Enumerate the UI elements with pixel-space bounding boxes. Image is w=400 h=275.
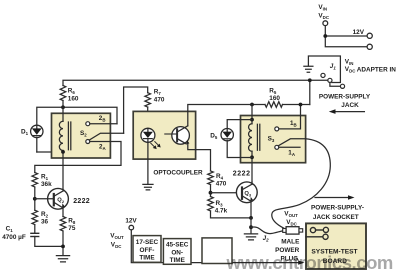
svg-text:Q2: Q2 [57, 198, 65, 204]
svg-text:R3: R3 [216, 200, 224, 208]
svg-text:MALE: MALE [281, 239, 300, 246]
resistor R7 (470) [145, 93, 151, 107]
diode D5 [221, 120, 252, 158]
ground in J1 [304, 66, 313, 72]
inductor coil S3 [249, 124, 252, 152]
svg-text:160: 160 [269, 95, 280, 102]
wire: opto collector up and right to relay/R5 line [188, 105, 265, 112]
svg-text:JACK SOCKET: JACK SOCKET [313, 214, 359, 221]
svg-text:TIME: TIME [170, 257, 186, 264]
svg-text:75: 75 [68, 225, 76, 232]
svg-text:VDC: VDC [345, 66, 356, 74]
wire: R3 bottom to Q3 emitter rail [211, 211, 252, 218]
svg-text:17-SEC: 17-SEC [136, 239, 159, 246]
wire: R4 bottom to base node [210, 185, 212, 197]
junction: J2 cable tap [249, 225, 253, 229]
svg-text:2222: 2222 [73, 198, 90, 205]
transistor Q2 [48, 188, 69, 216]
socket contact pair [310, 227, 328, 232]
relay box S3 [241, 116, 306, 163]
wire: R7 bottom into optocoupler box [147, 107, 149, 128]
wire: node to D1 anode and to S2 contact 2B riser [37, 107, 117, 125]
system-test board box [306, 223, 366, 269]
wire: main 12V bus from R6 top to jack J1 node [63, 80, 310, 104]
junction: coil bottom / D1 cathode [61, 150, 65, 154]
svg-text:470: 470 [154, 96, 165, 103]
wire: jack B to pin C [330, 83, 341, 87]
wire: R5 right to jack riser [283, 104, 310, 106]
wire: emitter rail down to ground [250, 218, 252, 234]
svg-text:www.cntronics.com: www.cntronics.com [226, 252, 393, 273]
svg-text:ON-: ON- [171, 249, 183, 256]
contact 1A circle [275, 145, 279, 149]
wire: bus node to jack contact B [310, 79, 328, 81]
junction: relay coil top on R5 line [250, 103, 254, 107]
wire: 2A lead to R1 top [35, 142, 121, 173]
wire: 2B lead [90, 123, 117, 125]
svg-text:Q3: Q3 [244, 191, 252, 197]
contact 1B circle [275, 127, 279, 131]
svg-text:C1: C1 [6, 226, 14, 234]
male power plug [283, 227, 303, 234]
junction: R8/C1/ground [61, 245, 65, 249]
wire: coil top riser [251, 105, 253, 124]
svg-text:12V: 12V [353, 29, 365, 36]
box blank [202, 238, 232, 264]
LED emission arrows [151, 142, 160, 148]
jack contact circle A [321, 73, 325, 77]
switch arm S3 [278, 139, 305, 146]
diode D1 [31, 125, 43, 152]
wire: R2 to C1 [34, 225, 36, 233]
resistor R6 (160) left vertical [60, 86, 66, 101]
jack pin circle C [340, 84, 344, 88]
wire: R6 bottom to node [62, 101, 64, 108]
junction: R4/R3/Q3 base [209, 191, 213, 195]
wire: S2 coil vertical (node to Q2 collector) [62, 107, 64, 190]
svg-text:R4: R4 [216, 173, 224, 181]
jack contact circle B [328, 78, 332, 82]
svg-text:VDC: VDC [318, 12, 329, 20]
svg-text:R7: R7 [154, 88, 162, 96]
inductor coil S2 [59, 121, 63, 150]
ground below R8 [56, 256, 69, 262]
svg-text:D5: D5 [210, 132, 218, 140]
wire: base lead Q2 [35, 198, 54, 200]
junction: R1/R2/Q2 base [33, 197, 37, 201]
svg-text:470: 470 [216, 181, 227, 188]
svg-text:VIN: VIN [345, 58, 354, 66]
svg-text:VDC: VDC [286, 219, 297, 227]
wire: R8 bottom to ground rail [62, 231, 64, 255]
svg-text:OPTOCOUPLER: OPTOCOUPLER [153, 170, 203, 177]
wire: VIN terminal to 12V terminals [325, 26, 367, 47]
svg-text:ADAPTER IN: ADAPTER IN [357, 66, 396, 73]
svg-text:D1: D1 [21, 129, 29, 137]
arrow to socket [315, 197, 349, 199]
wire: 12V output down and right to board [131, 230, 299, 263]
terminal VIN top circle [323, 21, 328, 26]
optocoupler box [133, 111, 195, 159]
box 17-SEC OFF-TIME [133, 236, 161, 263]
resistor R3 (4.7k) [208, 197, 214, 211]
svg-text:VIN: VIN [318, 4, 327, 12]
relay core bars S3 [257, 124, 259, 150]
svg-text:R6: R6 [68, 88, 76, 96]
terminal 12V output circle [129, 225, 134, 230]
svg-text:R2: R2 [41, 211, 49, 219]
svg-text:POWER-SUPPLY: POWER-SUPPLY [319, 93, 371, 100]
svg-text:VOUT: VOUT [284, 210, 298, 218]
svg-text:R1: R1 [41, 173, 49, 181]
svg-text:4.7k: 4.7k [215, 207, 228, 214]
terminal 12V right circles [367, 33, 372, 38]
svg-text:JACK: JACK [341, 102, 359, 109]
wire: R1 to base node [34, 187, 36, 210]
wire: S2 arm riser to R7 top [124, 87, 148, 133]
wire: 1B lead up to R5 line [279, 105, 301, 129]
ground under optocoupler LED [143, 159, 153, 190]
svg-text:VDC: VDC [111, 241, 122, 249]
junction: coil top / D5 [250, 118, 254, 122]
resistor R2 (36) [32, 210, 38, 224]
svg-text:J2: J2 [263, 235, 270, 243]
relay box S2 [52, 113, 111, 158]
svg-text:R8: R8 [68, 217, 76, 225]
junction: 1B riser on R5 line [299, 103, 303, 107]
wire: coil bottom to Q3 collector [251, 151, 253, 182]
ground below Q3 [244, 234, 257, 240]
svg-text:VOUT: VOUT [110, 232, 124, 240]
junction: emitter / R3 rail [249, 216, 253, 220]
resistor R8 (75) [60, 217, 66, 231]
svg-text:160: 160 [68, 96, 79, 103]
wire: J2 cable squiggle to male plug [251, 227, 284, 234]
contact 2B circle [86, 122, 90, 126]
resistor R5 (160) horizontal [265, 102, 283, 108]
svg-text:36k: 36k [41, 181, 52, 188]
relay core bars S2 [68, 122, 70, 150]
jack J1 box [308, 56, 340, 83]
node at R6 bottom / D1 / S2 coil top [61, 105, 65, 109]
LED inside optocoupler [141, 128, 155, 159]
wire: curved lead from S3 arm to male plug [272, 139, 331, 229]
wire: base node to Q3 [211, 192, 242, 194]
box 45-SEC ON-TIME [163, 239, 191, 265]
svg-text:12V: 12V [125, 218, 137, 225]
svg-text:POWER-SUPPLY-: POWER-SUPPLY- [311, 204, 364, 211]
wire: 1A stub [279, 146, 300, 148]
arrow to jack [335, 111, 364, 113]
switch arm S2 [89, 133, 123, 140]
svg-text:TIME: TIME [139, 255, 155, 262]
svg-text:45-SEC: 45-SEC [166, 242, 189, 249]
svg-text:36: 36 [41, 219, 49, 226]
transistor Q3 [236, 182, 257, 218]
resistor R1 (36k) [32, 173, 38, 187]
svg-text:4700 µF: 4700 µF [2, 234, 26, 241]
phototransistor inside optocoupler [165, 111, 196, 149]
resistor R4 (470) [208, 171, 214, 185]
junction: coil bottom / D5 [250, 155, 254, 159]
junction: VIN tee [323, 34, 327, 38]
contact 2A circle [86, 140, 90, 144]
junction: bus / jack [308, 78, 312, 82]
svg-text:OFF-: OFF- [140, 247, 155, 254]
socket entry contact [306, 234, 328, 239]
wire: opto emitter to R4 top [196, 150, 211, 171]
wire: D1 cathode to S2 coil bottom [37, 151, 63, 153]
svg-text:J1: J1 [330, 63, 337, 71]
capacitor C1 [31, 233, 63, 246]
svg-text:2222: 2222 [233, 171, 251, 178]
